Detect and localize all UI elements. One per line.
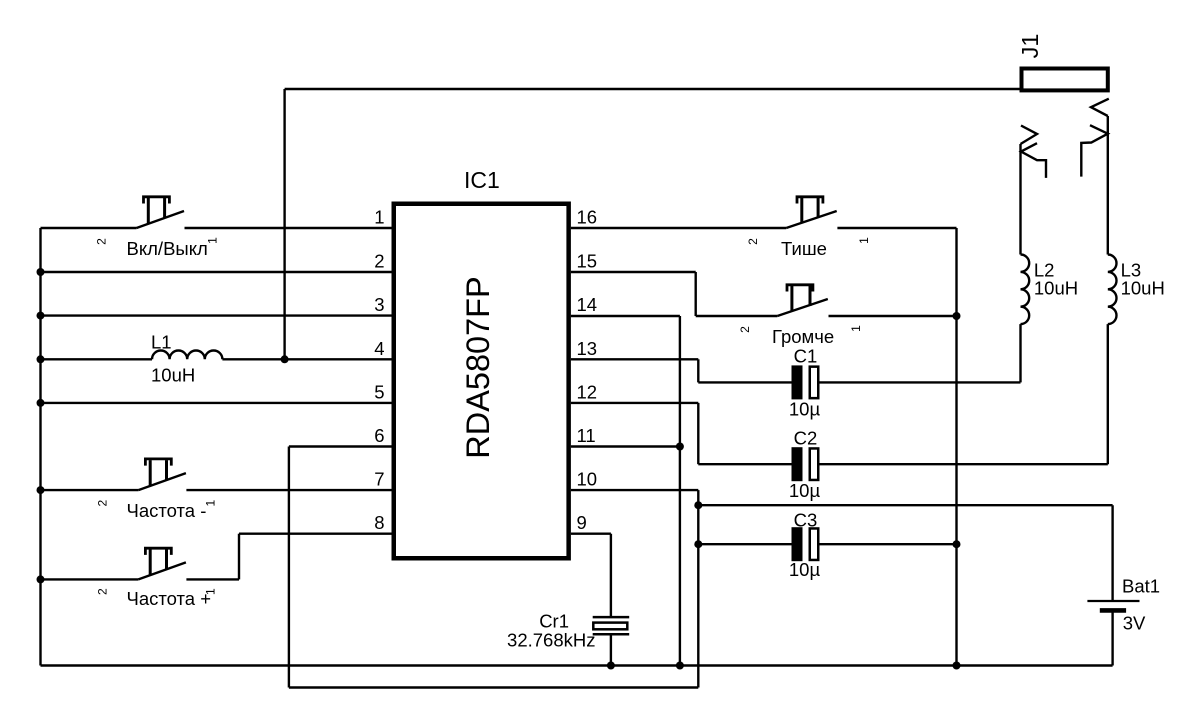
svg-text:12: 12 [577,381,598,402]
wire chastota+ step up [238,534,240,580]
svg-text:Частота +: Частота + [127,588,212,609]
svg-text:RDA5807FP: RDA5807FP [460,276,496,458]
node pin10 C3 tap [694,540,702,548]
wire J1 ring down to L3 [1107,116,1109,255]
wire pin12 step down [697,403,699,464]
wire pin2 row [41,271,392,273]
wire L2 bottom to C1 row [1019,324,1021,382]
node pin14/pin11 junction [676,443,684,451]
wire pin13 step down [697,359,699,382]
wire C2 row left [698,463,791,465]
wire battery plus vertical [1111,505,1113,601]
svg-text:32.768kHz: 32.768kHz [507,630,595,651]
svg-text:2: 2 [96,588,110,595]
svg-text:2: 2 [96,500,110,507]
wire pin15 step down [695,272,697,316]
wire pin16 row right segment [837,227,956,229]
switch S2 plunger [145,459,171,466]
wire pin3 row [41,314,392,316]
capacitor C2 minus plate [810,448,819,480]
svg-text:Cr1: Cr1 [539,611,569,632]
wire pin6 vertical [288,447,290,688]
svg-text:C2: C2 [794,427,818,448]
wire pin16 row left segment [571,227,786,229]
svg-text:Тише: Тише [781,238,827,259]
inductor L2 [1021,255,1030,325]
wire pin13 row [571,358,698,360]
wire pin7 row right segment [186,489,391,491]
node rail crystal [607,662,615,670]
wire chastota+ right segment [186,578,239,580]
capacitor C3 minus plate [810,528,819,560]
svg-text:10uH: 10uH [151,365,195,386]
wire chastota+ row left segment [41,578,139,580]
node bus pin5 [37,399,45,407]
wire pin14 vertical [679,316,681,666]
wire gromche row right segment [829,315,957,317]
wire pin9 row [571,533,611,535]
svg-text:1: 1 [204,500,218,507]
svg-text:C1: C1 [794,346,818,367]
svg-text:11: 11 [577,425,596,446]
svg-text:Громче: Громче [772,326,834,347]
svg-text:Вкл/Выкл: Вкл/Выкл [127,238,208,259]
wire C3 row right [820,543,957,545]
node rail right bus [953,662,961,670]
svg-text:J1: J1 [1017,34,1043,59]
node bus pin4 [37,355,45,363]
switch S5 plunger stems [792,286,810,312]
inductor L1 [152,350,222,359]
svg-text:1: 1 [204,588,218,595]
switch S1 plunger [144,197,170,204]
svg-text:2: 2 [95,238,109,245]
inductor L3 [1108,255,1117,325]
switch S5 plunger [787,285,813,292]
capacitor C2 plus plate [792,447,803,481]
wire pin1 row right segment [185,227,392,229]
capacitor C1 plus plate [792,365,803,399]
switch S3 plunger stems [150,549,166,575]
wire pin8 row [239,533,392,535]
wire C3 row left [698,543,791,545]
switch S1 Vkl/Vykl slash [137,211,185,228]
battery Bat1 plus plate [1087,600,1139,602]
switch S1 plunger stems [148,198,164,224]
svg-text:4: 4 [374,338,384,359]
wire pin4 row right of L1 [222,358,391,360]
wire C2 row right [820,463,1108,465]
IC U1 body [394,204,569,559]
wire battery minus to rail [1111,610,1113,665]
svg-text:3V: 3V [1123,613,1146,634]
wire pin10 vertical [697,490,699,687]
svg-text:L1: L1 [151,332,172,353]
svg-text:1: 1 [857,237,871,244]
wire pin4 row left of L1 [41,358,153,360]
switch S3 plunger [145,548,171,555]
svg-text:1: 1 [849,325,863,332]
wire bottom ground rail [41,664,1113,666]
svg-text:Частота -: Частота - [127,500,207,521]
wire J1 tip down to L2 [1019,144,1021,255]
svg-text:8: 8 [374,512,384,533]
svg-text:14: 14 [577,294,598,315]
wire crystal to ground rail [610,634,612,665]
switch S5 Gromche slash [777,299,828,316]
node bus chastota+ [37,575,45,583]
svg-text:5: 5 [374,381,384,402]
svg-text:10uH: 10uH [1034,278,1078,299]
node right bus gromche [953,312,961,320]
svg-text:10µ: 10µ [789,398,821,419]
jack J1 tip contact [1021,126,1047,178]
wire pin9 down to crystal [610,534,612,617]
svg-text:10µ: 10µ [789,480,821,501]
wire pin1 row left segment [41,227,137,229]
svg-text:1: 1 [206,237,220,244]
svg-text:2: 2 [374,251,384,272]
capacitor C1 minus plate [810,367,819,399]
switch S4 Tishe slash [786,211,837,228]
svg-text:2: 2 [738,326,752,333]
svg-text:1: 1 [374,207,384,228]
wire pin5 row [41,402,392,404]
svg-text:C3: C3 [794,509,818,530]
svg-text:IC1: IC1 [464,167,500,193]
wire right bus vertical [955,228,957,666]
switch S2 Chastota- slash [138,473,186,490]
connector J1 body [1022,69,1108,91]
wire pin15 row [571,271,696,273]
wire pin7 row left segment [41,489,139,491]
wire pin12 row [571,402,698,404]
svg-text:13: 13 [577,338,598,359]
svg-text:15: 15 [577,251,598,272]
wire top feed horizontal [285,88,1020,90]
wire pin6 row [289,445,392,447]
wire C1 row right [820,381,1021,383]
wire pin6 to pin10 bottom link [289,686,698,688]
svg-text:3: 3 [374,294,384,315]
wire L3 bottom to C2 row [1107,324,1109,464]
svg-text:10uH: 10uH [1121,278,1165,299]
svg-text:7: 7 [374,469,384,490]
wire battery plus row [698,504,1112,506]
wire pin10 row [571,489,698,491]
node bus pin3 [37,312,45,320]
switch S4 plunger stems [802,198,818,224]
capacitor C3 plus plate [792,527,803,561]
node bus pin2 [37,268,45,276]
svg-text:16: 16 [577,207,598,228]
battery Bat1 minus plate [1100,608,1126,613]
svg-text:10µ: 10µ [789,559,821,580]
crystal Cr1 [593,617,630,634]
wire pin14 row [571,315,680,317]
switch S2 plunger stems [150,460,166,486]
svg-text:Bat1: Bat1 [1122,576,1160,597]
svg-text:10: 10 [577,469,598,490]
jack J1 ring contact [1081,99,1109,177]
svg-text:9: 9 [577,512,587,533]
node bus pin7 [37,486,45,494]
wire top feed vertical to pin4 row [283,89,285,359]
node right bus C3 [953,540,961,548]
switch S4 plunger [797,197,823,204]
wire pin11 row [571,445,680,447]
wire left bus vertical [39,228,41,666]
wire C1 row left [698,381,791,383]
node pin10 battery tap [694,501,702,509]
svg-text:6: 6 [374,425,384,446]
node rail pin14 net [676,662,684,670]
switch S3 Chastota+ slash [138,562,186,579]
wire gromche row left segment [696,315,778,317]
svg-text:2: 2 [746,238,760,245]
node junction top-feed/pin4 [281,355,289,363]
crystal Cr1 body [593,623,627,630]
